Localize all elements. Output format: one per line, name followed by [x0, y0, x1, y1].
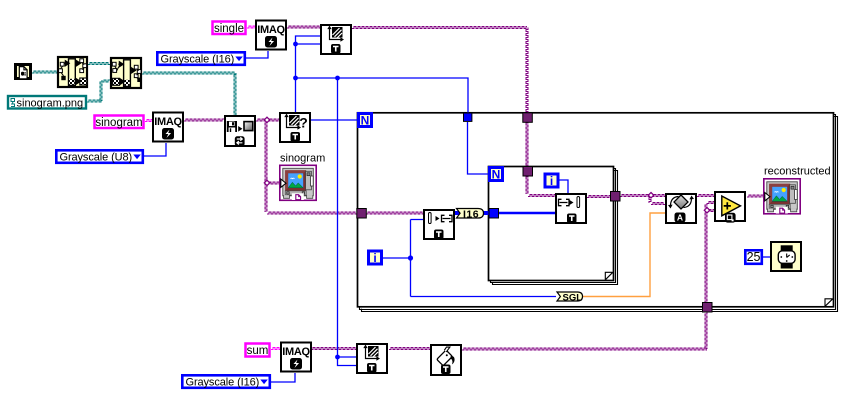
- svg-text:sinogram: sinogram: [280, 153, 325, 165]
- IMAQ FillImage (paint bucket): [431, 345, 461, 375]
- single image name label: [213, 22, 246, 35]
- sinogram display label: [280, 153, 325, 165]
- junction diamond before add: [704, 208, 709, 213]
- wire: sum image chain along bottom (purple): [311, 202, 714, 351]
- wire: add to reconstructed display (purple): [747, 195, 764, 197]
- svg-text:i: i: [373, 251, 376, 265]
- reconstructed image display indicator: [764, 179, 800, 214]
- file path constant icon: [16, 65, 31, 79]
- blue tunnel on outer loop top border: [464, 113, 472, 121]
- svg-text:?: ?: [299, 115, 308, 131]
- inner loop count terminal N: [490, 168, 503, 182]
- purple tunnel outer loop top border: [523, 113, 533, 123]
- purple tunnel inner loop right border: [611, 192, 621, 202]
- svg-text:sum: sum: [247, 345, 269, 357]
- Wait (ms) clock icon: [771, 242, 801, 271]
- IMAQ GetImageSize: [280, 113, 310, 142]
- SGL conversion bubble: [557, 292, 583, 303]
- wire: Grayscale I16 dropdown to IMAQ single (blue): [246, 51, 268, 58]
- wire: GetImageSize to outer N terminal (blue): [311, 119, 357, 121]
- flatten pixmap VI icon: [111, 58, 142, 88]
- svg-text:IMAQ: IMAQ: [257, 24, 285, 36]
- I16 coercion bubble: [457, 208, 484, 220]
- sinogram image display indicator: [280, 165, 316, 200]
- sinogram image name label: [95, 116, 144, 129]
- wire: SGL float to rotate angle input (orange): [583, 213, 665, 297]
- junction diamonds on purple wire: [264, 117, 269, 185]
- inner for loop frame (stacked): [489, 167, 618, 285]
- outer loop count terminal N: [359, 114, 372, 128]
- wire: GetImageSize width/height bus (blue): [293, 36, 468, 366]
- reconstructed display label: [764, 166, 831, 178]
- IMAQ ImageToArray: [424, 210, 454, 239]
- svg-text:reconstructed: reconstructed: [764, 166, 831, 178]
- IMAQ Add (yellow triangle): [715, 192, 745, 223]
- wire: sum label to IMAQ create (magenta): [271, 348, 281, 350]
- svg-text:single: single: [214, 23, 244, 35]
- wire: IMAQ create single to SetImageSize (purple image): [287, 26, 320, 28]
- IMAQ Create (sum): [281, 343, 311, 372]
- wire: sinogram.png label to icon2 (teal): [87, 80, 110, 102]
- IMAQ Create (sinogram): [153, 113, 183, 142]
- IMAQ SetImageSize (single): [321, 25, 351, 54]
- purple tunnel outer loop left border: [357, 209, 367, 219]
- wire: inner i terminal to ArrayToImage (blue): [558, 180, 568, 193]
- Grayscale (I16) dropdown (sum): [182, 375, 269, 388]
- svg-text:IMAQ: IMAQ: [154, 116, 182, 128]
- numeric constant 25: [745, 250, 762, 264]
- IMAQ ArrayToImage: [556, 194, 586, 223]
- outer loop corner glyph: [825, 299, 833, 307]
- sinogram.png path label: [8, 96, 86, 109]
- purple tunnel outer loop bottom border: [703, 303, 713, 313]
- junction diamond before rotate: [648, 193, 653, 198]
- IMAQ ReadFile (disk to image): [225, 116, 255, 146]
- svg-text:IMAQ: IMAQ: [282, 346, 310, 358]
- svg-text:N: N: [492, 168, 501, 182]
- wire: 25 constant to wait ms (blue): [763, 256, 770, 258]
- wire: ReadFile to GetImageSize (purple): [256, 119, 279, 121]
- outer for loop frame (stacked): [358, 113, 838, 312]
- svg-text:I16: I16: [463, 208, 479, 220]
- wire: SetImageSize single to loop tunnels (purple): [352, 27, 555, 197]
- inner loop iteration terminal i: [545, 174, 558, 188]
- svg-text:A: A: [677, 213, 683, 223]
- wire: sinogram label to IMAQ create (magenta): [145, 120, 153, 122]
- wire: Grayscale I16 dropdown to IMAQ sum (blue): [271, 373, 295, 382]
- IMAQ Create (single): [256, 21, 286, 50]
- svg-text:sinogram: sinogram: [95, 117, 142, 129]
- svg-text:sinogram.png: sinogram.png: [17, 97, 84, 109]
- wire: unflatten to flatten icon (teal): [88, 63, 110, 65]
- svg-text:SGL: SGL: [563, 292, 583, 303]
- IMAQ SetImageSize (sum): [357, 344, 387, 373]
- Grayscale (U8) dropdown: [56, 150, 143, 163]
- wire: outer i terminal branch (blue): [383, 220, 556, 297]
- wire: inner tunnel to rotate inputs (purple): [620, 195, 665, 205]
- wire: ArrayToImage out to inner tunnel (purple): [587, 196, 611, 198]
- purple tunnel inner loop top border: [523, 167, 533, 177]
- wire: IMAQ create sinogram to ReadFile (purple): [184, 119, 224, 121]
- svg-text:Grayscale (I16): Grayscale (I16): [186, 377, 260, 389]
- svg-text:i: i: [550, 174, 553, 188]
- IMAQ Rotate: [666, 194, 696, 223]
- blue tunnel inner loop left border (indexing): [489, 209, 499, 219]
- svg-text:25: 25: [747, 250, 761, 264]
- unflatten pixmap VI icon: [58, 57, 87, 87]
- wire: single label to IMAQ create (magenta string): [247, 26, 256, 28]
- Grayscale (I16) dropdown (single): [157, 52, 245, 65]
- inner loop corner glyph: [605, 272, 613, 280]
- wire: Grayscale U8 dropdown to IMAQ sinogram (blue): [144, 143, 166, 156]
- svg-text:Grayscale (U8): Grayscale (U8): [60, 152, 133, 164]
- wire: blue tunnel to inner N terminal: [468, 122, 489, 174]
- wire: rotate to add (purple): [697, 195, 714, 197]
- svg-text:Grayscale (I16): Grayscale (I16): [161, 54, 235, 66]
- sum image name label: [246, 344, 270, 358]
- outer loop iteration terminal i: [369, 251, 382, 265]
- wire: icon2 to IMAQ ReadFile top (teal): [142, 72, 236, 116]
- wire: path constant to unflatten icon (teal): [32, 71, 57, 73]
- svg-text:N: N: [361, 114, 370, 128]
- wire: ImageToArray thick array wire to I16 and tunnel (blue): [455, 211, 555, 215]
- wire: image branch down to display and loop (purple): [265, 121, 423, 214]
